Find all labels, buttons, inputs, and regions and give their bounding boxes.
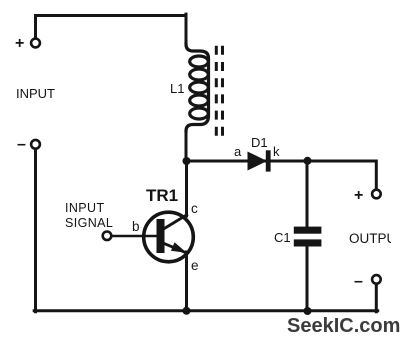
wire: bottom rail up to - output	[375, 284, 378, 312]
wire: input signal lead to base	[112, 235, 157, 238]
capacitor C1 bottom plate	[294, 239, 322, 246]
wire: input + terminal to top rail	[36, 16, 187, 39]
inductor L1 core (dashed lines)	[216, 46, 222, 136]
label: anode a	[234, 144, 241, 159]
label: collector pin c	[191, 201, 198, 216]
wire: inductor to collector node	[185, 131, 188, 161]
label: output - polarity	[354, 273, 363, 291]
inductor L1	[186, 44, 209, 131]
wire: transistor emitter down to bottom rail	[185, 252, 188, 311]
wire: bottom rail	[34, 309, 378, 312]
label: L1	[170, 81, 184, 96]
terminal: input -	[31, 140, 40, 149]
wire: top rail down to inductor	[185, 14, 188, 45]
label: TR1	[146, 186, 178, 206]
label: emitter pin e	[191, 258, 199, 273]
junction node (emitter/bottom rail)	[183, 307, 191, 315]
label: base pin b	[132, 219, 140, 234]
label: input - polarity	[17, 136, 26, 154]
wire: node to transistor collector	[185, 161, 188, 216]
label: cathode k	[273, 144, 280, 159]
terminal: output -	[372, 275, 381, 284]
watermark: SeekIC.com	[287, 315, 400, 338]
transistor TR1 collector stroke	[162, 213, 189, 231]
label: INPUT SIGNAL	[65, 201, 113, 231]
label: D1	[251, 135, 268, 150]
junction node (diode/capacitor)	[304, 157, 312, 165]
wire: diode rail down to + output	[375, 161, 378, 190]
wire: node A to diode rail	[187, 160, 377, 163]
junction node A (collector/diode)	[183, 157, 191, 165]
wire: capacitor bottom lead	[306, 247, 309, 311]
transistor TR1 base bar	[157, 219, 165, 253]
label: OUTPUT	[349, 231, 391, 246]
junction node (capacitor/bottom rail)	[304, 307, 312, 315]
terminal: input +	[31, 39, 40, 48]
label: output + polarity	[354, 187, 363, 205]
terminal: input signal	[103, 232, 112, 241]
transistor TR1 body	[144, 212, 194, 262]
label: INPUT	[16, 86, 55, 101]
label: input + polarity	[15, 35, 24, 53]
diode D1 anode triangle	[248, 152, 268, 171]
diode D1 cathode bar	[266, 150, 271, 171]
capacitor C1 top plate	[294, 227, 322, 234]
transistor TR1 emitter stroke with arrow	[161, 241, 187, 254]
wire: capacitor top lead	[306, 161, 309, 227]
label: C1	[274, 230, 291, 245]
terminal: output +	[372, 190, 381, 199]
wire: input - terminal down left side	[34, 149, 37, 312]
